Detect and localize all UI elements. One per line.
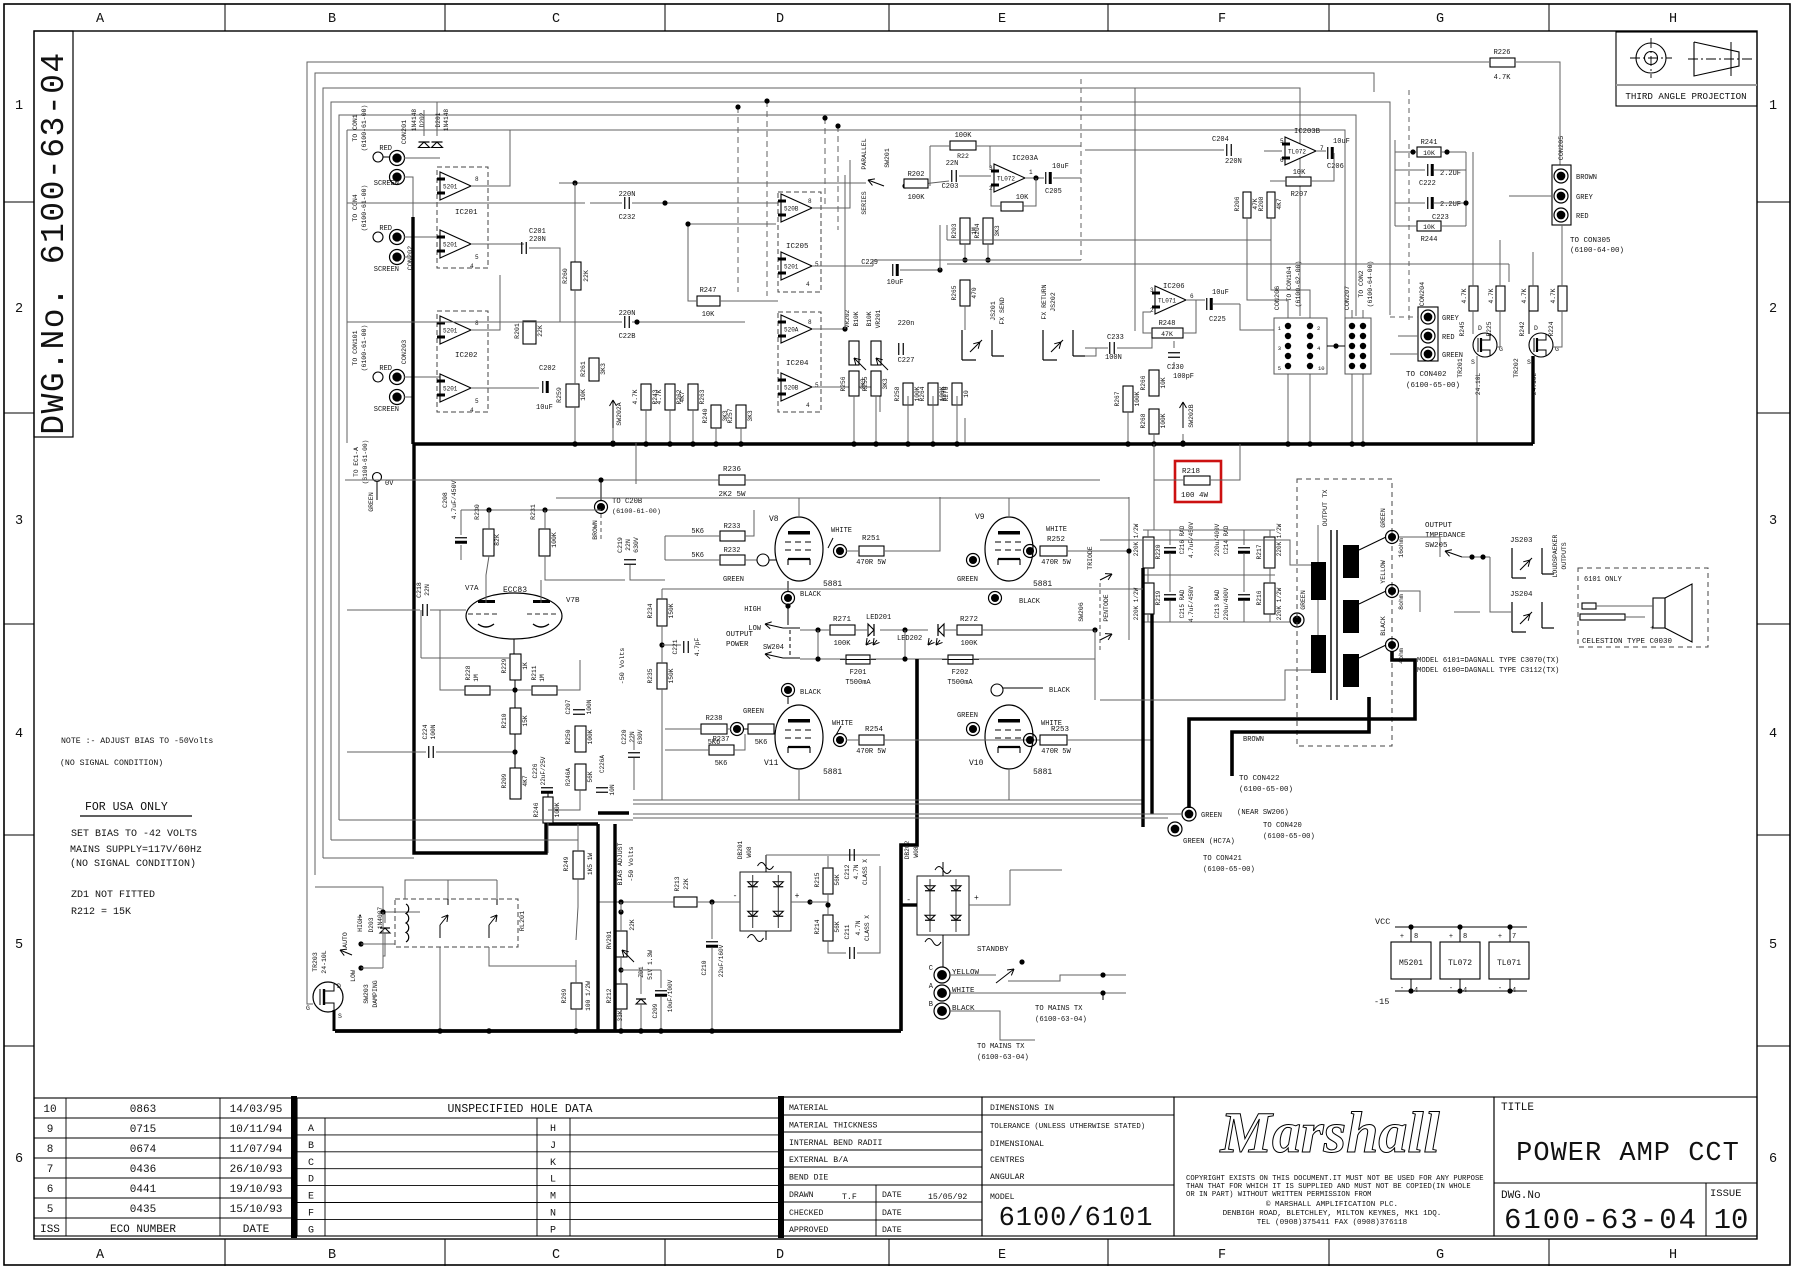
svg-text:(6100-64-00): (6100-64-00) [1367, 261, 1374, 308]
material data table [783, 1097, 982, 1236]
wire [579, 660, 581, 690]
svg-text:HIGH: HIGH [357, 916, 364, 932]
svg-text:470: 470 [971, 287, 978, 298]
svg-text:R267: R267 [1114, 391, 1121, 406]
svg-text:TO CON104: TO CON104 [1286, 266, 1293, 301]
vacuum tube V8 5881 [775, 517, 823, 581]
svg-text:SW206: SW206 [1078, 602, 1085, 622]
svg-text:10uF: 10uF [1212, 289, 1229, 297]
IC TL071 power pins [1489, 942, 1529, 979]
svg-text:IC203B: IC203B [1294, 128, 1321, 136]
svg-text:R258: R258 [894, 386, 901, 401]
svg-text:4: 4 [470, 407, 474, 414]
svg-text:PENTODE: PENTODE [1103, 594, 1110, 621]
wire [404, 236, 440, 238]
svg-text:E: E [308, 1192, 314, 1203]
wire [900, 269, 940, 271]
svg-text:V7A: V7A [465, 585, 479, 593]
wire [1240, 304, 1274, 330]
svg-text:RED: RED [379, 145, 392, 153]
svg-text:1M: 1M [473, 674, 480, 682]
wire [787, 604, 789, 625]
svg-text:IC205: IC205 [786, 243, 809, 251]
svg-text:F202: F202 [952, 669, 969, 677]
svg-text:OUTPUT: OUTPUT [726, 631, 754, 639]
svg-text:22K: 22K [629, 919, 636, 930]
resistor R218 100 4W highlighted [1175, 461, 1221, 502]
svg-text:R245: R245 [1459, 321, 1466, 336]
node anode V10 white [1024, 734, 1037, 747]
svg-text:100K: 100K [961, 640, 979, 648]
svg-text:3: 3 [1769, 514, 1777, 529]
wire [942, 944, 944, 967]
svg-text:R229: R229 [501, 658, 508, 673]
svg-text:DB202: DB202 [904, 840, 911, 859]
svg-text:TO CON2: TO CON2 [1358, 270, 1365, 297]
svg-text:IC202: IC202 [455, 352, 478, 360]
title block [1494, 1097, 1757, 1236]
wire [635, 443, 637, 484]
svg-text:T.F: T.F [842, 1193, 857, 1202]
svg-text:ISSUE: ISSUE [1710, 1188, 1742, 1200]
svg-text:4.7K: 4.7K [1494, 74, 1512, 82]
svg-text:NOTE :- ADJUST BIAS TO -50Volt: NOTE :- ADJUST BIAS TO -50Volts [61, 736, 213, 746]
svg-text:0441: 0441 [130, 1184, 157, 1196]
fuse F202 T500mA [948, 655, 973, 664]
node cathode V10 black [991, 684, 1003, 696]
svg-text:4K7: 4K7 [522, 775, 529, 786]
svg-text:4.7uF/450V: 4.7uF/450V [451, 480, 458, 519]
svg-text:100N: 100N [586, 699, 593, 714]
svg-text:100 4W: 100 4W [1181, 492, 1209, 500]
svg-text:8: 8 [47, 1144, 54, 1156]
wire [488, 520, 490, 529]
svg-text:F: F [308, 1209, 314, 1220]
svg-text:C205: C205 [1045, 188, 1062, 196]
svg-text:IC203A: IC203A [1012, 155, 1039, 163]
wire [420, 610, 422, 658]
svg-text:BLACK: BLACK [800, 591, 822, 599]
svg-text:5K6: 5K6 [691, 552, 704, 560]
wire [1100, 540, 1311, 565]
wire [513, 639, 515, 654]
svg-text:CHECKED: CHECKED [789, 1209, 823, 1218]
node output tap green 16ohm [1359, 537, 1386, 550]
svg-text:(6100-61-00): (6100-61-00) [361, 185, 368, 232]
svg-text:C22B: C22B [619, 333, 636, 341]
svg-text:D202: D202 [419, 112, 426, 127]
svg-text:IC206: IC206 [1163, 283, 1185, 291]
wire [990, 145, 1081, 147]
wire vertical drop to IC203A stage [737, 107, 739, 292]
svg-text:A: A [308, 1124, 314, 1135]
svg-text:R202: R202 [908, 171, 925, 179]
svg-text:D: D [1534, 325, 1538, 332]
svg-text:TO CON421: TO CON421 [1203, 855, 1242, 863]
svg-text:220N: 220N [619, 191, 636, 199]
svg-text:TL072: TL072 [1288, 149, 1306, 156]
svg-text:G: G [1436, 1248, 1444, 1263]
svg-text:-50 Volts: -50 Volts [619, 648, 627, 685]
wire [665, 559, 690, 561]
svg-text:IC204: IC204 [786, 360, 809, 368]
svg-text:3: 3 [1278, 345, 1281, 352]
svg-text:9: 9 [47, 1124, 54, 1136]
wire [486, 556, 489, 603]
svg-text:BLACK: BLACK [1380, 616, 1387, 636]
svg-text:630V: 630V [637, 729, 644, 744]
svg-text:4.7N: 4.7N [855, 920, 862, 935]
wire [947, 263, 1509, 265]
wire [630, 565, 665, 580]
svg-text:SCREEN: SCREEN [374, 406, 399, 414]
svg-text:TO MAINS TX: TO MAINS TX [977, 1043, 1025, 1051]
wire [1490, 557, 1512, 612]
svg-text:B: B [328, 12, 336, 27]
wire [846, 550, 859, 552]
wire [574, 407, 576, 428]
svg-text:R211: R211 [531, 665, 538, 680]
wire tubes lower rail [798, 769, 800, 800]
svg-text:C210: C210 [701, 960, 708, 975]
svg-text:-: - [1449, 985, 1453, 993]
svg-text:6: 6 [1280, 157, 1284, 164]
wire [1395, 151, 1417, 153]
svg-text:DWG.No. 6100-63-04: DWG.No. 6100-63-04 [36, 51, 73, 434]
svg-text:R215: R215 [814, 872, 821, 887]
svg-text:TL071: TL071 [1158, 298, 1176, 305]
svg-text:F201: F201 [850, 669, 867, 677]
node grid V9 green [967, 554, 980, 567]
wire [1025, 177, 1044, 179]
transistor TR203 damping [313, 982, 343, 1012]
svg-text:10N: 10N [609, 784, 616, 795]
svg-text:CENTRES: CENTRES [990, 1156, 1024, 1165]
svg-text:WHITE: WHITE [832, 720, 853, 728]
wire [598, 811, 629, 814]
vacuum tube V9 5881 [985, 517, 1033, 581]
relay coil [406, 904, 409, 942]
svg-text:5: 5 [1280, 138, 1284, 145]
svg-text:4K7: 4K7 [679, 391, 686, 402]
wire [1067, 739, 1152, 741]
svg-text:10K: 10K [580, 389, 587, 401]
svg-text:CON204: CON204 [1419, 282, 1427, 306]
svg-text:H: H [1669, 1248, 1677, 1263]
node cathode V8 black [782, 592, 795, 605]
wire [697, 901, 740, 903]
svg-text:T500mA: T500mA [845, 679, 871, 687]
capacitor C211 4.7N CLASS X [849, 947, 851, 959]
svg-text:V9: V9 [975, 513, 985, 522]
svg-text:5: 5 [475, 254, 479, 261]
wire [812, 160, 850, 208]
svg-text:10: 10 [1318, 365, 1325, 372]
svg-text:DWG.No: DWG.No [1501, 1190, 1541, 1202]
capacitor C216 RAD 4.7uF/450V [1164, 547, 1176, 549]
wire nested top routing bus 5 [339, 115, 1356, 820]
svg-text:R272: R272 [960, 616, 978, 624]
svg-text:R248: R248 [1159, 320, 1176, 328]
heavy divider bar left of hole data table [291, 1096, 297, 1238]
switch SW202A [612, 400, 614, 430]
wire [1100, 670, 1311, 700]
svg-text:R247: R247 [700, 287, 717, 295]
svg-text:R244: R244 [1421, 236, 1438, 244]
svg-text:1K: 1K [522, 662, 529, 670]
svg-text:R257: R257 [727, 408, 734, 423]
wire [471, 243, 524, 245]
svg-text:DB201: DB201 [737, 840, 744, 859]
svg-text:CLASS X: CLASS X [862, 859, 869, 885]
svg-text:R207: R207 [1291, 191, 1308, 199]
svg-text:BLACK: BLACK [800, 689, 822, 697]
svg-text:GREY: GREY [1576, 194, 1594, 202]
wire nested top routing bus 2 [315, 73, 1374, 875]
wire [633, 813, 1182, 815]
svg-text:8: 8 [1414, 933, 1418, 941]
wire [690, 535, 720, 537]
svg-text:R261: R261 [580, 361, 587, 377]
wire [662, 588, 1143, 590]
wire [323, 857, 414, 859]
svg-text:T500mA: T500mA [947, 679, 973, 687]
svg-text:R253: R253 [1051, 726, 1070, 734]
wire [1067, 550, 1129, 552]
svg-text:SW205: SW205 [1425, 542, 1448, 550]
wire thick transformer primary CT brown [1232, 697, 1369, 776]
svg-text:V7B: V7B [566, 597, 580, 605]
svg-text:JS201: JS201 [990, 301, 997, 321]
svg-text:SW202A: SW202A [616, 402, 623, 426]
wire [471, 275, 500, 330]
svg-text:TO C20B: TO C20B [612, 498, 643, 506]
svg-text:FOR USA ONLY: FOR USA ONLY [85, 801, 168, 814]
node grid V10 green [967, 723, 980, 736]
transistor TR201 [1473, 333, 1497, 357]
svg-text:TO CON402: TO CON402 [1406, 371, 1447, 379]
wire [783, 627, 800, 629]
svg-text:2: 2 [15, 302, 23, 317]
vacuum tube V11 5881 [775, 705, 823, 769]
svg-text:EXTERNAL B/A: EXTERNAL B/A [789, 1155, 848, 1165]
svg-text:(NEAR SW206): (NEAR SW206) [1237, 809, 1289, 817]
svg-text:15/05/92: 15/05/92 [928, 1192, 967, 1202]
svg-text:(6100-65-00): (6100-65-00) [1239, 786, 1293, 794]
wire [930, 145, 950, 147]
svg-text:TL072: TL072 [1448, 959, 1472, 968]
svg-text:8: 8 [808, 319, 812, 326]
svg-text:520B: 520B [784, 206, 799, 213]
svg-text:LED202: LED202 [897, 635, 922, 643]
svg-text:R263: R263 [699, 389, 706, 404]
svg-text:R218: R218 [1182, 468, 1200, 476]
svg-text:4.7K: 4.7K [656, 389, 663, 404]
svg-text:ANGULAR: ANGULAR [990, 1173, 1024, 1182]
wire [939, 225, 941, 270]
wire [1008, 498, 1010, 517]
svg-text:8: 8 [808, 198, 812, 205]
wire connector risers to bus [1287, 374, 1289, 444]
svg-text:(6100-61-00): (6100-61-00) [612, 508, 661, 516]
resistor 5K6 grid stopper V11 [748, 724, 774, 734]
svg-text:10K: 10K [1016, 194, 1029, 202]
svg-text:OUTPUT TX: OUTPUT TX [1322, 490, 1330, 527]
svg-text:S: S [1471, 359, 1475, 366]
wire [791, 901, 810, 903]
svg-text:10uF/100V: 10uF/100V [667, 979, 674, 1012]
svg-text:5: 5 [815, 261, 819, 268]
wire nested top routing bus 6 [347, 130, 1345, 318]
svg-text:R251: R251 [862, 535, 881, 543]
wire [665, 749, 709, 751]
wire [496, 880, 498, 899]
svg-text:+: + [1650, 625, 1654, 633]
wire [577, 879, 579, 907]
svg-text:GREEN: GREEN [957, 576, 978, 584]
resistor R244 10K [1417, 221, 1441, 231]
svg-text:IMPEDANCE: IMPEDANCE [1425, 532, 1466, 540]
svg-text:0436: 0436 [130, 1164, 156, 1176]
svg-text:A: A [96, 1248, 105, 1263]
svg-text:R237: R237 [713, 736, 730, 744]
svg-text:R268: R268 [1140, 413, 1147, 428]
wire [800, 658, 846, 660]
svg-text:R22: R22 [957, 153, 969, 160]
wire [1094, 630, 1096, 700]
svg-text:JS203: JS203 [1510, 537, 1533, 545]
svg-text:(6100-65-00): (6100-65-00) [1406, 382, 1460, 390]
wire dashed feedback vertical [1080, 79, 1082, 241]
svg-text:IC201: IC201 [455, 209, 478, 217]
svg-text:56K: 56K [587, 771, 594, 782]
svg-text:TO CON422: TO CON422 [1239, 775, 1280, 783]
svg-text:(6100-61-00): (6100-61-00) [362, 440, 369, 485]
wire [688, 223, 776, 225]
wire [1434, 169, 1466, 171]
wire [733, 901, 740, 903]
svg-text:26/10/93: 26/10/93 [230, 1164, 283, 1176]
svg-text:5: 5 [475, 398, 479, 405]
svg-text:R201: R201 [514, 323, 521, 339]
svg-text:R231: R231 [530, 504, 537, 520]
svg-text:C226: C226 [532, 763, 539, 778]
svg-text:R204: R204 [974, 223, 981, 238]
svg-text:C: C [929, 965, 933, 973]
svg-text:R266: R266 [1140, 375, 1147, 390]
svg-text:+: + [974, 894, 979, 903]
svg-text:0435: 0435 [130, 1204, 156, 1216]
DWG number vertical box [34, 31, 73, 437]
wire [817, 630, 819, 659]
wire [769, 559, 776, 561]
wire dashed vertical [1408, 90, 1410, 320]
svg-text:TO CON1: TO CON1 [352, 114, 359, 141]
svg-text:100K: 100K [834, 640, 852, 648]
svg-text:5881: 5881 [823, 768, 842, 777]
svg-text:(6100-61-00): (6100-61-00) [361, 325, 368, 372]
svg-text:YELLOW: YELLOW [1380, 560, 1387, 584]
svg-text:5: 5 [47, 1204, 54, 1216]
svg-text:-: - [733, 892, 738, 901]
svg-text:D203: D203 [368, 917, 375, 932]
svg-text:5881: 5881 [823, 580, 842, 589]
wire risers to supply bus [574, 428, 576, 443]
wire [460, 510, 462, 535]
svg-text:4.7K: 4.7K [1488, 288, 1495, 303]
wire [1395, 169, 1425, 171]
wire [1085, 348, 1096, 356]
power rail -15 [1395, 990, 1527, 992]
svg-text:OUTPUTS: OUTPUTS [1561, 542, 1568, 569]
svg-text:TO CON305: TO CON305 [1570, 237, 1611, 245]
wire thick center supply drop [915, 659, 919, 813]
svg-text:4: 4 [806, 402, 810, 409]
svg-text:51V 1.3W: 51V 1.3W [647, 950, 654, 980]
wire [620, 957, 622, 984]
capacitor C213 RAD 220u/400V [1238, 594, 1250, 596]
wire [421, 657, 510, 659]
svg-text:R226: R226 [1494, 49, 1511, 57]
svg-text:S: S [1527, 359, 1531, 366]
wire [404, 157, 440, 159]
svg-text:B10K: B10K [866, 311, 873, 326]
svg-text:4: 4 [15, 727, 23, 742]
svg-text:BROWN: BROWN [1243, 736, 1264, 744]
svg-text:BLACK: BLACK [952, 1005, 975, 1013]
svg-text:VCC: VCC [1375, 917, 1390, 927]
wire [1528, 311, 1530, 334]
svg-text:2.2UF: 2.2UF [1440, 170, 1461, 178]
svg-text:RED: RED [379, 365, 392, 373]
svg-text:220N: 220N [619, 310, 636, 318]
wire [846, 739, 859, 741]
svg-text:E: E [998, 1248, 1006, 1263]
svg-text:DATE: DATE [882, 1209, 902, 1218]
svg-text:R246: R246 [533, 802, 540, 817]
node output tap black 4ohm [1359, 645, 1386, 658]
wire [1509, 195, 1552, 197]
svg-text:5: 5 [815, 382, 819, 389]
wire [1080, 241, 1082, 260]
svg-text:C: C [552, 1248, 560, 1263]
svg-text:4.7K: 4.7K [632, 389, 639, 404]
svg-text:GREEN: GREEN [1300, 590, 1307, 610]
wire long feedback run [872, 260, 874, 266]
op-amp IC205 (dual 5201) [778, 192, 821, 292]
svg-text:10: 10 [43, 1104, 56, 1116]
svg-text:RED: RED [1442, 334, 1455, 342]
svg-text:R217: R217 [1256, 544, 1263, 559]
svg-text:DAMPING: DAMPING [372, 980, 379, 1007]
capacitor C215 RAD 4.7uF/450V [1164, 594, 1176, 596]
svg-text:DIMENSIONAL: DIMENSIONAL [990, 1140, 1044, 1149]
svg-text:C213 RAD: C213 RAD [1214, 589, 1221, 618]
svg-text:DIMENSIONS IN: DIMENSIONS IN [990, 1104, 1054, 1113]
svg-text:C209: C209 [652, 1003, 659, 1018]
wire [331, 839, 578, 841]
wire [471, 130, 510, 186]
svg-text:R242: R242 [1519, 321, 1526, 336]
svg-text:RV201: RV201 [606, 930, 613, 949]
svg-text:1N4148: 1N4148 [443, 109, 450, 132]
svg-text:POWER AMP CCT: POWER AMP CCT [1516, 1139, 1740, 1169]
svg-text:D: D [337, 983, 341, 990]
svg-text:16ohm: 16ohm [1398, 538, 1405, 558]
wire [598, 901, 674, 903]
svg-text:220u/400V: 220u/400V [1223, 587, 1230, 620]
svg-text:3: 3 [15, 514, 23, 529]
